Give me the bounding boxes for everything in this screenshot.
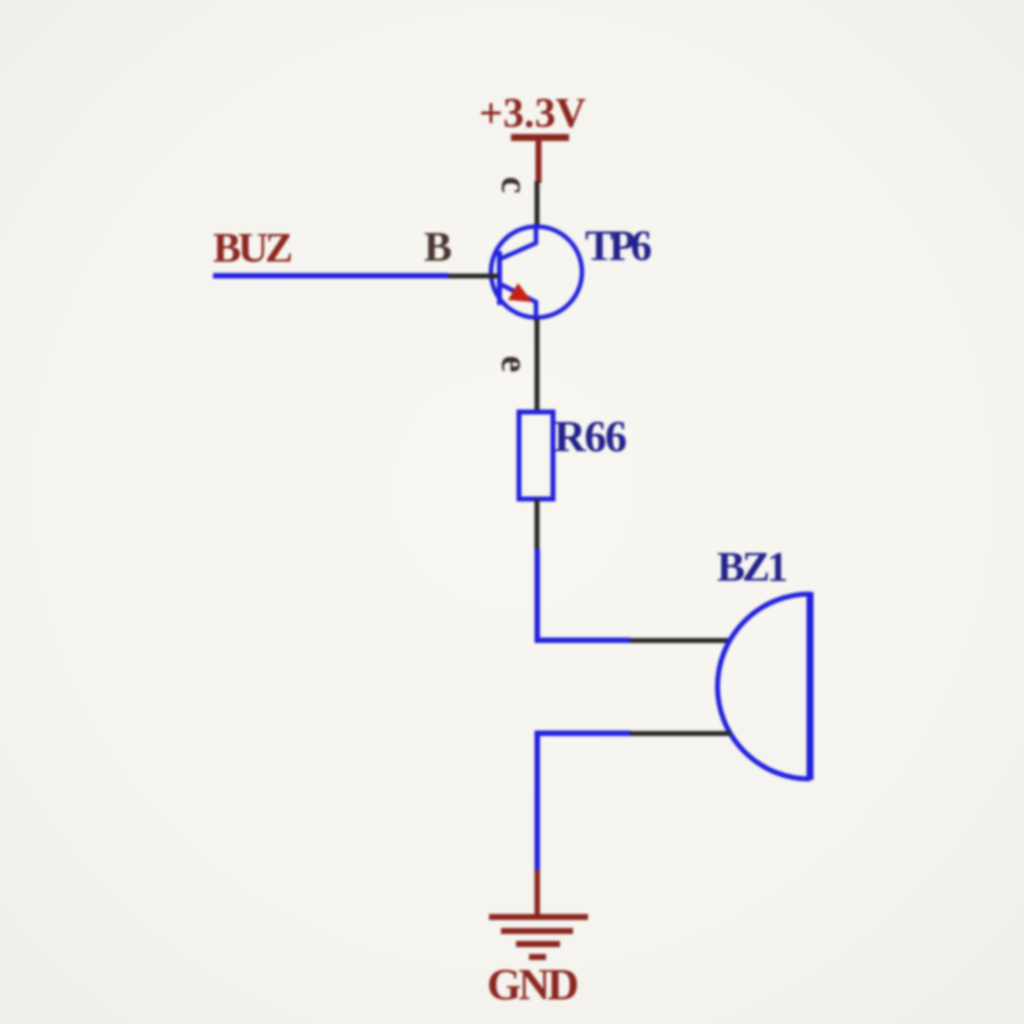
- svg-text:BUZ: BUZ: [213, 226, 293, 272]
- wire: buzzer top pin blue: [535, 638, 631, 644]
- svg-text:+3.3V: +3.3V: [479, 91, 586, 137]
- transistor TP6 collector stroke: [500, 224, 536, 259]
- ground bar 2: [501, 928, 573, 934]
- svg-text:B: B: [424, 225, 452, 271]
- svg-text:R66: R66: [554, 412, 627, 461]
- transistor TP6 emitter arrow (red): [508, 283, 532, 302]
- wire: vertical blue to buzzer top: [535, 549, 541, 643]
- ground bar 4: [529, 954, 546, 960]
- buzzer BZ1 body: [718, 592, 811, 780]
- wire: below resistor black: [535, 499, 540, 550]
- wire: buzzer bottom pin blue: [535, 731, 631, 737]
- ground bar 3: [516, 941, 560, 947]
- wire: buzzer top pin black: [630, 638, 731, 643]
- wire: +3.3V stem (maroon): [536, 138, 542, 183]
- resistor R66: [519, 412, 553, 499]
- wire: BUZ net (blue): [213, 273, 448, 279]
- wire: emitter black: [535, 319, 540, 412]
- svg-text:c: c: [493, 177, 535, 194]
- wire: collector black: [535, 181, 540, 228]
- svg-text:TP6: TP6: [585, 223, 652, 270]
- svg-text:e: e: [493, 356, 535, 373]
- transistor TP6 circle: [491, 227, 582, 318]
- transistor TP6 emitter stroke: [500, 284, 536, 321]
- wire: vertical blue to ground: [535, 731, 541, 872]
- svg-text:BZ1: BZ1: [717, 545, 788, 591]
- ground stem (maroon): [535, 870, 541, 917]
- transistor TP6 base bar: [497, 251, 502, 305]
- svg-text:GND: GND: [487, 960, 579, 1009]
- power symbol +3.3V bar: [511, 134, 569, 141]
- wire: base pin (black): [448, 274, 498, 279]
- ground bar 1: [489, 914, 588, 920]
- wire: buzzer bottom pin black: [630, 731, 731, 736]
